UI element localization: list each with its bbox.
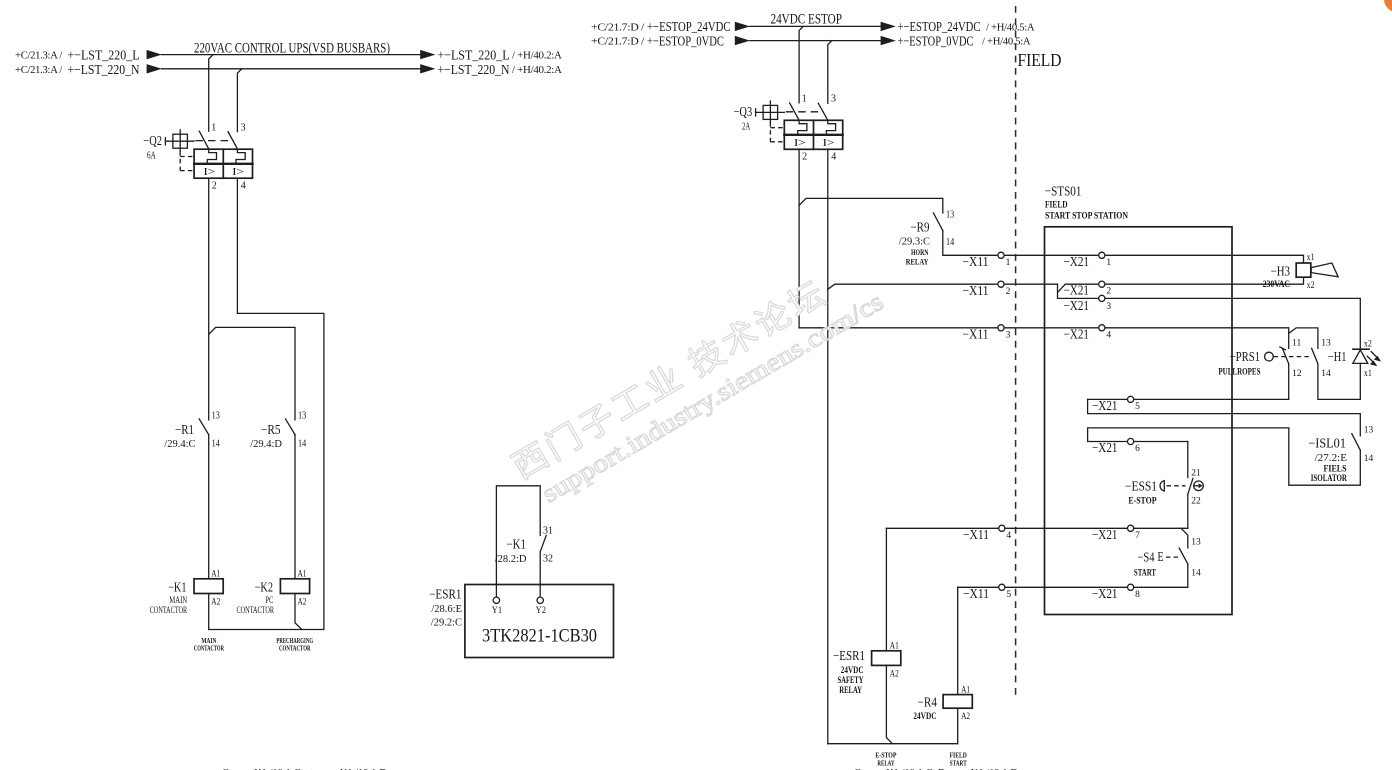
svg-text:14: 14 (946, 237, 954, 248)
svg-text:14: 14 (212, 438, 220, 449)
pull-rope switch PRS1 contact 13-14 (1312, 339, 1331, 380)
svg-text:RELAY: RELAY (906, 256, 929, 266)
svg-text:CONTACTOR: CONTACTOR (237, 606, 275, 616)
terminal X21:1 (1064, 252, 1112, 269)
wire LST_220_N bus (162, 68, 421, 70)
svg-text:+−LST_220_N: +−LST_220_N (438, 63, 510, 78)
svg-text:+C/21.7:D /: +C/21.7:D / (591, 36, 645, 48)
terminal X21:2 (1064, 281, 1112, 298)
svg-text:+−LST_220_L: +−LST_220_L (68, 49, 140, 64)
svg-text:−STS01: −STS01 (1045, 184, 1082, 199)
svg-text:22: 22 (1191, 497, 1201, 507)
wire row X11-5 / X21-8 (958, 586, 1188, 588)
svg-text:−X21: −X21 (1064, 298, 1090, 313)
svg-text:E-STOP: E-STOP (1128, 496, 1156, 506)
label FIELD START function (950, 751, 968, 768)
svg-text:CONTACTOR: CONTACTOR (194, 643, 224, 652)
terminal X21:3 (1064, 295, 1112, 313)
svg-text:−X11: −X11 (963, 283, 989, 298)
terminal X11:1 (963, 252, 1011, 269)
wire from LST_220_L down to Q2 pin 1 (209, 55, 213, 132)
breaker Q3 (734, 94, 843, 163)
svg-text:START: START (950, 759, 968, 768)
node ESTOP_0VDC destination reference (881, 34, 1031, 49)
svg-text:−H1: −H1 (1328, 349, 1347, 364)
svg-text:+−ESTOP_0VDC: +−ESTOP_0VDC (898, 34, 974, 49)
svg-text:24VDC: 24VDC (841, 666, 864, 676)
svg-text:7: 7 (1135, 531, 1140, 541)
safety relay ESR1 box 3TK2821 (465, 585, 614, 658)
terminal X21:7 (1092, 525, 1140, 542)
wire R4 A2 down to bus (957, 708, 959, 744)
contact R9 HORN RELAY (13-14) (899, 210, 954, 267)
node LST_220_L source reference (15, 49, 162, 64)
svg-text:3: 3 (1106, 302, 1111, 312)
svg-text:ISOLATOR: ISOLATOR (1311, 474, 1347, 484)
svg-text:FIELD: FIELD (1045, 201, 1068, 211)
svg-text:4: 4 (1106, 330, 1111, 340)
wire ESS1 22 down to X21-7 row (1187, 494, 1189, 528)
svg-text:4: 4 (1006, 531, 1011, 541)
svg-text:−R4: −R4 (918, 694, 938, 709)
svg-text:CONTACTOR: CONTACTOR (279, 643, 311, 652)
node FIELD boundary dashed line (1015, 6, 1017, 697)
svg-text:−ESS1: −ESS1 (1125, 478, 1157, 493)
wire row2 0VDC branch to X11-2 (828, 284, 1058, 289)
actuator ESS1 E-STOP mushroom (1125, 478, 1203, 506)
terminal X21:4 (1064, 325, 1112, 342)
wire PRS1 12 down to X21-5 row (1288, 364, 1290, 400)
svg-text:I>: I> (794, 137, 806, 149)
svg-text:A2: A2 (890, 670, 899, 680)
svg-text:I>: I> (232, 166, 244, 178)
svg-text:PC: PC (265, 596, 273, 606)
wire row2 45 branch to X21-2 and H3 x2 (1058, 277, 1303, 292)
svg-text:/27.2:E: /27.2:E (1315, 453, 1347, 464)
node LST_220_N source reference (15, 63, 162, 78)
svg-text:1: 1 (1006, 258, 1011, 268)
svg-text:I>: I> (823, 137, 835, 149)
svg-text:A1: A1 (211, 570, 220, 580)
svg-text:14: 14 (1321, 369, 1331, 379)
svg-text:13: 13 (946, 210, 954, 221)
contact R5 (13-14) (250, 410, 306, 450)
svg-text:14: 14 (1364, 454, 1374, 464)
svg-text:13: 13 (298, 410, 306, 421)
wire row1 R9 to X11-1 to horn H3 x1 (943, 231, 1304, 263)
svg-text:−X21: −X21 (1064, 283, 1090, 298)
svg-text:24VDC: 24VDC (913, 712, 936, 722)
svg-text:21: 21 (1191, 469, 1201, 479)
svg-text:−X11: −X11 (963, 254, 989, 269)
emergency stop ESS1 contact 21-22 (1188, 442, 1201, 507)
svg-text:START: START (1134, 569, 1157, 579)
svg-text:x1: x1 (1307, 253, 1315, 263)
svg-text:Y1: Y1 (492, 606, 503, 616)
terminal X21:8 (1092, 584, 1140, 601)
contact R1 (13-14) (164, 410, 220, 450)
wire from LST_220_N down to Q2 pin 3 (237, 69, 241, 132)
svg-text:5: 5 (1006, 590, 1011, 600)
svg-text:E: E (1158, 550, 1164, 565)
svg-text:/29.3:C: /29.3:C (899, 236, 930, 247)
svg-text:−R5: −R5 (261, 422, 281, 437)
wire K1 A2 down (208, 594, 210, 630)
wire contact 32 to Y2 (539, 552, 541, 597)
terminal X11:2 (963, 281, 1011, 298)
svg-text:2: 2 (1106, 287, 1111, 297)
svg-text:support.industry.siemens.com/c: support.industry.siemens.com/cs (537, 287, 888, 509)
terminal X21:6 (1092, 438, 1140, 455)
svg-text:−X11: −X11 (963, 586, 989, 601)
svg-text:/ +H/40.2:A: / +H/40.2:A (512, 64, 562, 76)
svg-text:−X11: −X11 (963, 326, 989, 341)
terminal X21:5 (1092, 396, 1140, 413)
svg-text:/29.4:C: /29.4:C (164, 439, 195, 450)
wire branch to contact R5 (209, 327, 295, 419)
label ESR1 cross reference (429, 587, 462, 629)
svg-text:CONTACTOR: CONTACTOR (150, 606, 188, 616)
svg-text:−PRS1: −PRS1 (1230, 349, 1260, 364)
wire X11-4 row down to coil ESR1 A1 (885, 528, 887, 651)
terminal X11:4 (963, 525, 1011, 542)
svg-text:I>: I> (203, 166, 215, 178)
wire row3 45 branch to PRS1 contact 13 (1289, 328, 1318, 349)
actuator PRS1 PULLROPES (1218, 349, 1310, 378)
svg-text:3: 3 (1006, 330, 1011, 340)
svg-text:13: 13 (1191, 538, 1201, 548)
svg-text:3: 3 (241, 122, 246, 133)
svg-text:+−ESTOP_0VDC: +−ESTOP_0VDC (647, 34, 724, 49)
svg-text:4: 4 (241, 181, 246, 192)
label PRECHARGING CONTACTOR function (276, 636, 313, 653)
svg-text:6: 6 (1135, 444, 1140, 454)
contact K1 aux (31-32) (495, 526, 553, 565)
svg-text:−R1: −R1 (175, 422, 194, 437)
svg-text:2: 2 (802, 152, 807, 163)
wire LST_220_L bus (162, 54, 421, 56)
label E-STOP RELAY function (875, 751, 896, 768)
svg-text:−S4: −S4 (1138, 550, 1155, 565)
svg-text:−H3: −H3 (1271, 264, 1290, 279)
wire H1 x1 down to bus (1359, 363, 1361, 399)
lamp H1 LED (1328, 339, 1381, 379)
svg-text:RELAY: RELAY (839, 686, 862, 696)
wire ESTOP_0VDC down to Q3 pin 3 (828, 41, 832, 104)
wire ESTOP_24VDC bus (750, 25, 881, 27)
svg-text:−ESR1: −ESR1 (429, 587, 461, 602)
breaker Q2 (143, 122, 252, 191)
svg-text:+C/21.3:A /: +C/21.3:A / (15, 50, 63, 62)
svg-text:A1: A1 (890, 642, 899, 652)
horn H3 230VAC (1263, 253, 1338, 291)
svg-text:3: 3 (831, 94, 836, 105)
wire ESR1 Y1 loop (496, 486, 540, 597)
svg-text:32: 32 (543, 554, 553, 565)
svg-text:−X21: −X21 (1092, 586, 1118, 601)
svg-text:+C/21.7:D /: +C/21.7:D / (591, 21, 645, 33)
wire ESR1 A2 down to bus (886, 665, 892, 743)
wire Q2 pin 2 down to contact R1 (208, 178, 210, 420)
coil ESR1 24VDC SAFETY RELAY (833, 642, 901, 697)
svg-text:x2: x2 (1307, 281, 1315, 291)
svg-text:13: 13 (212, 410, 220, 421)
wire row2 jog down to X21-3 level and on to H1 (1058, 284, 1361, 349)
coil K2 PC CONTACTOR (237, 570, 310, 616)
coil R4 24VDC FIELD START (913, 685, 972, 722)
svg-text:−X21: −X21 (1064, 254, 1090, 269)
svg-text:−Q2: −Q2 (143, 133, 162, 148)
svg-text:−X21: −X21 (1092, 440, 1118, 455)
terminal X11:3 (963, 325, 1011, 342)
enclosure STS01 FIELD START STOP STATION (1045, 184, 1233, 614)
node LST_220_L destination reference (420, 49, 562, 64)
wire X21-5 row (1088, 398, 1289, 400)
wire row X11-4 / X21-7 (886, 527, 1187, 529)
svg-text:x1: x1 (1364, 369, 1372, 379)
wire ESTOP_0VDC bus (750, 40, 881, 42)
svg-text:/28.2:D: /28.2:D (495, 554, 527, 565)
svg-text:−X21: −X21 (1064, 326, 1090, 341)
svg-text:RELAY: RELAY (877, 759, 894, 768)
svg-text:12: 12 (1292, 369, 1302, 379)
svg-text:2A: 2A (742, 122, 751, 133)
wire ESTOP_24VDC down to Q3 pin 1 (799, 26, 803, 103)
svg-text:+−LST_220_L: +−LST_220_L (438, 49, 510, 64)
wire R1 to coil K1 (208, 435, 210, 579)
wire R5 to coil K2 (294, 435, 296, 579)
svg-text:西门子工业 技术论坛: 西门子工业 技术论坛 (506, 273, 834, 486)
wire X21-5 to isolator ISL01 pin 13 (1088, 399, 1361, 435)
svg-text:−R9: −R9 (910, 219, 929, 234)
svg-text:−K1: −K1 (168, 580, 186, 595)
svg-text:14: 14 (298, 438, 306, 449)
svg-text:4: 4 (831, 152, 836, 163)
svg-text:1: 1 (211, 122, 216, 133)
svg-text:5: 5 (1135, 402, 1140, 412)
svg-text:230VAC: 230VAC (1263, 280, 1290, 290)
wire ISL01 14 back to X21-6 (1088, 428, 1361, 485)
svg-text:FIELD: FIELD (1018, 50, 1062, 70)
start button S4 contact 13-14 (1134, 538, 1201, 579)
wire K2 A2 down with 45 jog (295, 594, 302, 630)
svg-text:PULLROPES: PULLROPES (1218, 368, 1260, 378)
svg-text:11: 11 (1292, 339, 1301, 349)
svg-text:Y2: Y2 (536, 606, 547, 616)
svg-text:/ +H/40.5:A: / +H/40.5:A (986, 21, 1035, 33)
svg-text:/ +H/40.5:A: / +H/40.5:A (982, 36, 1031, 48)
svg-text:1: 1 (1106, 258, 1111, 268)
pull-rope switch PRS1 contact 11-12 (1280, 339, 1302, 380)
svg-text:A2: A2 (211, 598, 220, 608)
svg-text:6A: 6A (147, 150, 156, 161)
svg-text:MAIN: MAIN (169, 596, 187, 606)
node LST_220_N destination reference (420, 63, 562, 78)
svg-text:−ISL01: −ISL01 (1308, 435, 1346, 450)
svg-text:A2: A2 (961, 712, 970, 722)
wire row3 24VDC to X21-4 and PRS1 (799, 328, 1289, 349)
wire branch to start button S4 (1181, 528, 1188, 548)
wire Q3 pin 4 down (0VDC return) (827, 149, 829, 743)
svg-text:−Q3: −Q3 (734, 104, 753, 119)
svg-text:+−ESTOP_24VDC: +−ESTOP_24VDC (647, 20, 731, 35)
wire X11-5 row down to coil R4 A1 (957, 587, 959, 694)
svg-text:−X11: −X11 (963, 527, 989, 542)
svg-text:−X21: −X21 (1092, 527, 1118, 542)
svg-text:−K1: −K1 (507, 536, 527, 551)
svg-text:SAFETY: SAFETY (838, 676, 864, 686)
svg-text:2: 2 (212, 181, 217, 192)
svg-text:/29.2:C: /29.2:C (431, 618, 462, 629)
wire A2 return bus to N (209, 313, 324, 629)
svg-text:24VDC ESTOP: 24VDC ESTOP (771, 11, 842, 27)
wire PRS1 14 down to H1 x1 bus (1318, 364, 1360, 400)
svg-text:+C/21.3:A /: +C/21.3:A / (15, 64, 63, 76)
svg-text:/29.4:D: /29.4:D (250, 439, 282, 450)
svg-text:−ESR1: −ESR1 (833, 648, 865, 663)
svg-text:/28.6:E: /28.6:E (431, 604, 462, 615)
decorative orange corner dot (1384, 0, 1392, 13)
terminal X11:5 (963, 584, 1011, 601)
node ESTOP_0VDC source reference (591, 34, 750, 49)
isolator contact ISL01 (13-14) (1308, 426, 1373, 484)
label MAIN CONTACTOR function (194, 636, 224, 653)
coil K1 MAIN CONTACTOR (150, 570, 224, 616)
svg-text:+−LST_220_N: +−LST_220_N (68, 63, 140, 78)
svg-text:13: 13 (1364, 426, 1374, 436)
svg-text:2: 2 (1006, 287, 1011, 297)
svg-text:x2: x2 (1364, 339, 1372, 349)
svg-text:−X21: −X21 (1092, 398, 1118, 413)
wire Q2 pin 4 down (236, 178, 238, 313)
svg-text:A1: A1 (961, 685, 970, 695)
svg-text:/ +H/40.2:A: / +H/40.2:A (512, 50, 562, 62)
watermark siemens forum (506, 251, 888, 514)
svg-text:+−ESTOP_24VDC: +−ESTOP_24VDC (898, 20, 981, 35)
wire S4 14 down to X21-8 row (1187, 564, 1189, 587)
wire 0VDC bottom bus (828, 743, 958, 745)
svg-text:1: 1 (802, 94, 807, 105)
node ESTOP_24VDC destination reference (881, 20, 1035, 35)
svg-text:13: 13 (1321, 339, 1331, 349)
svg-text:−K2: −K2 (255, 580, 273, 595)
svg-text:A2: A2 (298, 598, 307, 608)
node ESTOP_24VDC source reference (591, 20, 750, 35)
svg-text:START STOP STATION: START STOP STATION (1045, 212, 1128, 222)
wire branch to relay contact R9 (799, 198, 943, 213)
svg-text:8: 8 (1135, 590, 1140, 600)
svg-text:14: 14 (1191, 568, 1201, 578)
wire Q3 pin 2 down (switched 24VDC) (798, 149, 800, 327)
svg-text:A1: A1 (298, 570, 307, 580)
svg-text:31: 31 (543, 526, 553, 537)
svg-text:3TK2821-1CB30: 3TK2821-1CB30 (482, 627, 597, 647)
